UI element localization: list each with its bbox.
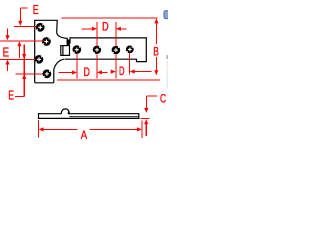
D top left arrowhead bbox=[92, 27, 97, 31]
dim E bottom upper stem bbox=[23, 45, 25, 97]
side view of plate bbox=[39, 109, 139, 119]
D bottom: arrowhead left of hole3 ext bbox=[111, 70, 116, 74]
red arrowheads bbox=[5, 18, 158, 131]
B top arrowhead bbox=[154, 18, 158, 23]
E top lower arrowhead bbox=[17, 41, 21, 46]
knuckle slot rectangle bbox=[61, 46, 70, 56]
C upper arrowhead bbox=[144, 108, 148, 113]
A dimension line bbox=[43, 128, 78, 130]
knuckle inner line bbox=[62, 46, 64, 56]
hole block 4 bbox=[43, 69, 52, 78]
svg-text:D: D bbox=[102, 20, 109, 34]
dim E bottom lower stem and leader bbox=[15, 95, 25, 97]
plate profile with knuckle bump bbox=[39, 109, 139, 119]
dim E top leader bbox=[20, 7, 27, 9]
C lower arrowhead bbox=[144, 119, 148, 124]
holes bbox=[35, 23, 134, 78]
hole bar 4 bbox=[126, 46, 134, 54]
dim D top extension lines bbox=[96, 22, 98, 46]
D bottom: arrowhead right of hole4 ext bbox=[130, 69, 135, 73]
dim E top lower arrow stem bbox=[18, 46, 20, 58]
dim B top stem bbox=[155, 23, 157, 44]
bar hole bottom extension lines bbox=[76, 54, 78, 78]
E bottom upper arrowhead bbox=[22, 54, 26, 59]
A right arrowhead bbox=[137, 127, 142, 131]
neck lower curve a bbox=[54, 59, 64, 82]
hole bar 3 bbox=[112, 46, 121, 55]
dim B bottom stem bbox=[155, 57, 157, 71]
dimension text labels bbox=[3, 2, 167, 142]
bump right base blob bbox=[68, 112, 70, 114]
dim D top right arrow line bbox=[120, 28, 126, 30]
D top right arrowhead bbox=[116, 27, 121, 31]
row A centerline bbox=[14, 26, 37, 28]
A left arrowhead bbox=[39, 127, 44, 131]
dim E mid lower stem bbox=[7, 64, 9, 71]
D bottom: arrowhead right of hole2 ext bbox=[97, 70, 102, 74]
plate inner edge line bbox=[69, 116, 139, 118]
top right blue ui fragment bbox=[164, 11, 170, 19]
row B centerline bbox=[0, 40, 45, 42]
C leader bbox=[146, 95, 157, 97]
dim D top left arrow line bbox=[82, 28, 93, 30]
svg-text:A: A bbox=[81, 128, 88, 142]
svg-text:C: C bbox=[160, 91, 166, 105]
bar outline bbox=[65, 38, 147, 62]
C bottom stem bbox=[145, 124, 147, 136]
dim E mid upper stem bbox=[7, 29, 9, 36]
side view A extension lines bbox=[38, 120, 40, 137]
red dimension linework bbox=[0, 8, 160, 138]
svg-text:D: D bbox=[84, 65, 90, 79]
hole bar 2 bbox=[93, 46, 101, 54]
C bottom extension tick bbox=[141, 117, 150, 119]
knuckle riser solid bbox=[67, 40, 70, 46]
D bottom: arrowhead at hole1 ext bbox=[72, 70, 77, 74]
E bottom lower arrowhead bbox=[22, 74, 26, 79]
svg-text:B: B bbox=[153, 44, 159, 58]
long bottom extension line bbox=[57, 79, 160, 81]
left block outline with top fillet bbox=[35, 20, 66, 83]
top extension line bbox=[62, 17, 158, 19]
right edge pastel streaks bbox=[166, 55, 168, 88]
part outline: hinge plate top view bbox=[35, 20, 147, 83]
row D centerline bbox=[16, 73, 43, 75]
block bottom edge bbox=[35, 82, 54, 84]
svg-text:D: D bbox=[119, 64, 125, 78]
dim D bottom row lines bbox=[59, 72, 73, 74]
B bottom arrowhead bbox=[154, 70, 158, 75]
E mid lower arrowhead bbox=[5, 60, 9, 65]
row C centerline bbox=[0, 58, 35, 60]
svg-text:E: E bbox=[8, 87, 14, 102]
hole bar 1 bbox=[73, 45, 82, 54]
hole block 1 bbox=[36, 23, 45, 32]
hole block 3 bbox=[35, 55, 44, 64]
E top upper arrowhead bbox=[18, 21, 22, 26]
svg-text:E: E bbox=[33, 2, 39, 17]
svg-text:E: E bbox=[3, 44, 10, 59]
hole block 2 bbox=[42, 37, 51, 46]
E mid upper arrowhead bbox=[5, 35, 9, 40]
